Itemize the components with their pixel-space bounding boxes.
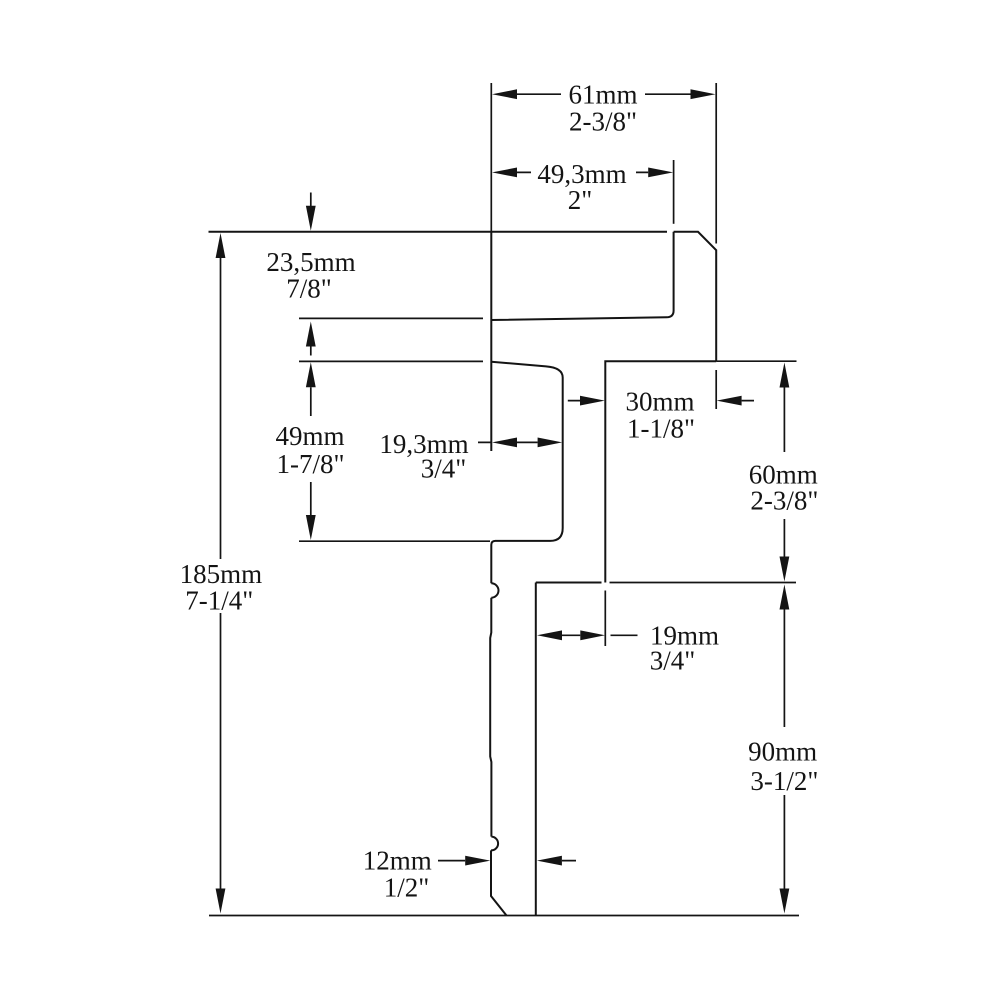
profile top edge (y=232) with slit gap at x=667..673.6 <box>209 231 668 233</box>
svg-text:2": 2" <box>568 185 593 215</box>
extension line x=605.3 below step (for 19mm) <box>604 591 606 647</box>
profile bottom-left chamfer <box>491 850 507 915</box>
profile flex notch 2 <box>491 837 498 851</box>
extension line x=673.6 (for 49,3mm) <box>673 160 675 224</box>
svg-text:1-7/8": 1-7/8" <box>276 449 344 479</box>
svg-text:30mm: 30mm <box>625 387 694 417</box>
svg-text:2-3/8": 2-3/8" <box>569 107 637 137</box>
svg-text:7/8": 7/8" <box>286 274 332 304</box>
profile lower step top edge (y=582.5 from x=535.8 to 601.5) <box>536 582 602 584</box>
svg-text:23,5mm: 23,5mm <box>266 247 355 277</box>
profile left edge upper (x=491.3 from top to y=451) <box>490 232 492 451</box>
svg-text:3/4": 3/4" <box>650 646 696 676</box>
extension line x=716 below head (for 30mm) <box>715 370 717 409</box>
svg-text:185mm: 185mm <box>180 559 263 589</box>
svg-text:61mm: 61mm <box>568 80 637 110</box>
profile top-right edge and chamfer to right side <box>674 232 717 361</box>
profile head bottom edge (y=361.2 from x=605.3 to 716) <box>605 361 716 582</box>
dimension 12mm leader and arrows (y=860.6) <box>438 860 576 862</box>
profile lower web left edge with small jogs <box>490 598 491 837</box>
dimension 60mm line and arrows (x=784.4) <box>783 388 785 557</box>
extension line y=582.5 right (for 60mm bottom / 90mm top) <box>610 582 797 584</box>
svg-text:7-1/4": 7-1/4" <box>185 586 253 616</box>
svg-text:3/4": 3/4" <box>421 454 467 484</box>
extension line x=491.3 above profile (for 61mm and 49,3mm) <box>490 83 492 232</box>
baseline y=915.5 (bottom extension for 185mm and 90mm) <box>209 915 799 917</box>
profile inner slot vertical x=673.6 with corner to inner ceiling line <box>491 232 673 320</box>
extension line y=361.4 left (for 49mm top) <box>299 360 483 362</box>
dimension 30mm arrows (y=400.6, outside style) <box>568 400 754 402</box>
extension line y=541.2 left (for 49mm bottom) <box>299 540 490 542</box>
extension line y=318.4 left (for 23,5mm bottom) <box>299 317 483 319</box>
svg-text:2-3/8": 2-3/8" <box>750 486 818 516</box>
svg-text:3-1/2": 3-1/2" <box>750 766 818 796</box>
dimension 23,5mm arrows (x=310.8, outside style) <box>310 193 312 356</box>
profile lower web left edge with flex notch 1 <box>491 583 498 597</box>
svg-text:1/2": 1/2" <box>384 873 430 903</box>
dimension 49mm line and arrows (x=310.8) <box>310 387 312 515</box>
dimension 49,3mm line and arrows (y=172.4) <box>517 171 648 173</box>
svg-text:12mm: 12mm <box>363 846 432 876</box>
dimension 19,3mm line, arrows and leader (y=442.4) <box>478 441 538 443</box>
profile lower web right edge (x=535.8) <box>535 583 537 916</box>
dimension 19mm line, arrows and leader (y=635.3) <box>562 634 638 636</box>
profile mid web: sloped top, right edge x=562.7, bottom y=540.9 <box>491 362 562 584</box>
svg-text:90mm: 90mm <box>748 737 817 767</box>
dimension 90mm line and arrows (x=784.4) <box>783 610 785 889</box>
extension line y=361.2 right (for 60mm top) <box>716 360 796 362</box>
extension line x=716 above profile (for 61mm) <box>715 83 717 244</box>
dimension 61mm line and arrows (y=94.2) <box>517 93 691 95</box>
svg-text:1-1/8": 1-1/8" <box>627 414 695 444</box>
dimension 185mm line and arrows (x=220.5) <box>220 258 222 889</box>
svg-text:49mm: 49mm <box>275 421 344 451</box>
